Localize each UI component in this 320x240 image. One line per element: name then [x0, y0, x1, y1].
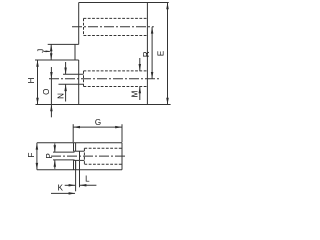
- svg-text:R: R: [142, 51, 151, 57]
- svg-text:G: G: [95, 118, 101, 127]
- svg-text:F: F: [27, 152, 36, 157]
- svg-text:P: P: [45, 153, 54, 158]
- svg-text:E: E: [156, 51, 165, 56]
- svg-text:J: J: [36, 49, 45, 53]
- svg-text:O: O: [42, 89, 51, 95]
- svg-text:N: N: [57, 93, 66, 99]
- svg-text:L: L: [85, 174, 90, 183]
- svg-text:M: M: [131, 90, 140, 97]
- svg-text:K: K: [58, 184, 64, 193]
- svg-text:H: H: [27, 77, 36, 83]
